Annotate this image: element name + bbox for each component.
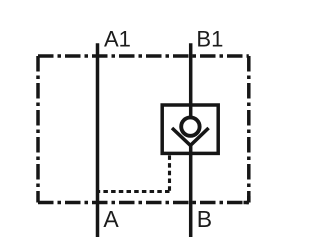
wire valve to port B (lower segment)	[189, 145, 193, 237]
pilot line vertical segment	[168, 155, 171, 191]
enclosure dashed boundary left edge	[36, 56, 40, 203]
enclosure dashed boundary (subplate / manifold outline) top edge	[38, 54, 249, 58]
svg-text:A: A	[103, 206, 119, 232]
wire port B1 to valve (upper segment)	[189, 43, 193, 122]
svg-text:B1: B1	[196, 27, 223, 52]
pilot line horizontal segment to line A	[98, 190, 170, 193]
enclosure boundary bottom-right corner joint	[247, 196, 251, 203]
check valve seat	[172, 128, 209, 145]
wire port A1 to A vertical line	[96, 43, 100, 237]
enclosure dashed boundary right edge	[247, 56, 251, 203]
check valve ball	[181, 117, 199, 135]
svg-text:B: B	[197, 206, 212, 232]
svg-text:A1: A1	[104, 27, 131, 52]
check valve V1 body box	[162, 105, 218, 153]
enclosure dashed boundary bottom edge	[38, 201, 249, 205]
